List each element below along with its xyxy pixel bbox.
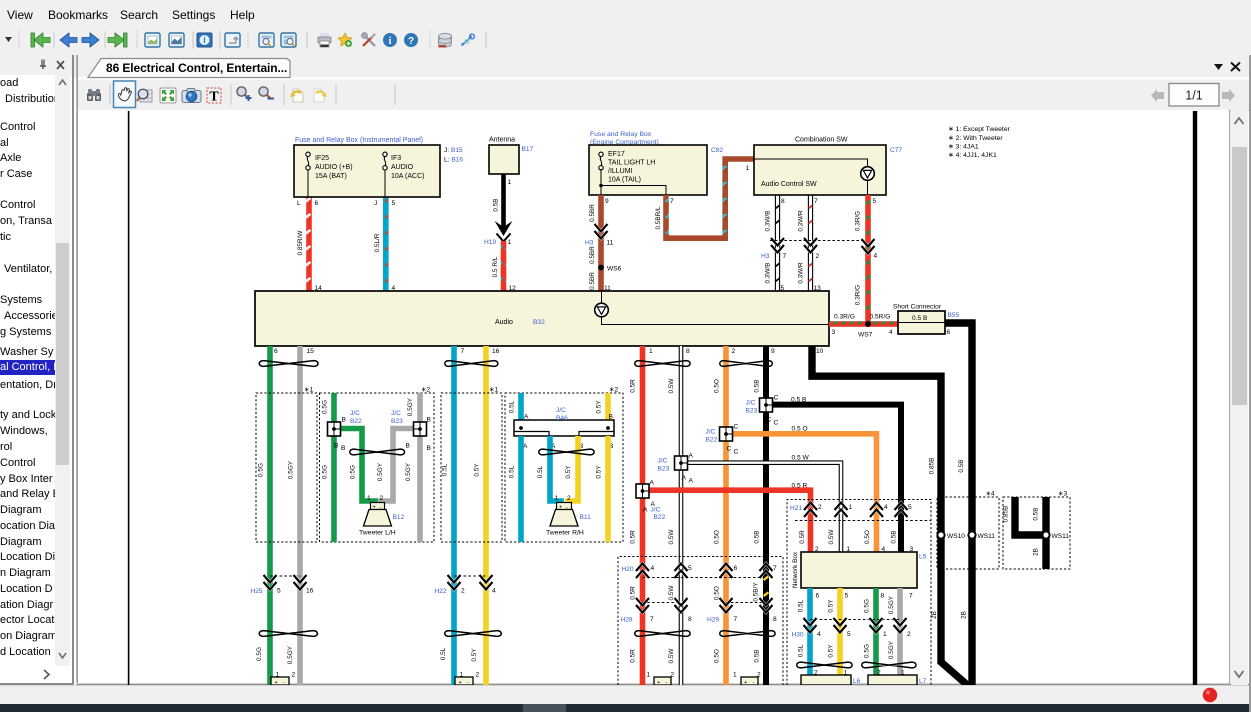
T — [207, 88, 221, 105]
twisted pair tweeter LH — [350, 449, 405, 455]
svg-text:2: 2 — [732, 348, 736, 355]
help circle — [404, 33, 418, 47]
wire 0.5W audio pin8 — [679, 346, 684, 685]
svg-text:∗4: ∗4 — [986, 491, 996, 498]
svg-text:2B: 2B — [931, 611, 938, 619]
svg-text:B22: B22 — [706, 437, 718, 444]
network box dashed container — [787, 500, 931, 686]
svg-text:0.5Y: 0.5Y — [828, 644, 835, 658]
back/forward — [60, 33, 77, 47]
window zoom icons — [259, 33, 274, 47]
svg-text:AUDIO (+B): AUDIO (+B) — [315, 164, 353, 171]
0.3W/B wire — [775, 195, 779, 291]
svg-text:L5: L5 — [919, 554, 927, 561]
hand selected — [114, 81, 136, 108]
svg-text:9: 9 — [771, 348, 775, 355]
svg-text:J/C: J/C — [746, 400, 756, 407]
svg-text:J: J — [374, 200, 377, 207]
0.3R/G wire from lamp down to WS7 — [865, 195, 871, 324]
svg-text:0.85B: 0.85B — [1003, 506, 1010, 523]
dashed box *2b with tweeter — [505, 393, 623, 542]
svg-text:0.5L: 0.5L — [509, 465, 516, 478]
svg-text:0.5W: 0.5W — [668, 378, 675, 394]
svg-text:5: 5 — [277, 588, 281, 595]
svg-text:J/C: J/C — [391, 410, 401, 417]
svg-text:∗3: ∗3 — [1058, 491, 1068, 498]
twisted pair O/B lower — [720, 631, 775, 637]
twisted pair tweeter RH — [539, 449, 594, 455]
svg-text:86 Electrical Control, Enterta: 86 Electrical Control, Entertain... — [106, 61, 287, 75]
svg-text:0.5 B: 0.5 B — [791, 397, 807, 404]
svg-text:1: 1 — [849, 504, 853, 511]
connect search — [461, 34, 474, 46]
ground wire 0.85B variant — [1015, 497, 1046, 535]
svg-text:H28: H28 — [621, 617, 633, 624]
wire 0.5L audio pin7 — [451, 346, 457, 685]
svg-text:0.5GY: 0.5GY — [287, 645, 294, 664]
svg-text:C82: C82 — [711, 147, 723, 154]
svg-text:0.5W: 0.5W — [668, 648, 675, 664]
svg-text:J: B15: J: B15 — [444, 147, 463, 154]
svg-text:0.5Y: 0.5Y — [471, 648, 478, 662]
junction WS11 — [968, 531, 975, 538]
info circle — [383, 33, 397, 47]
audio box — [255, 291, 829, 346]
svg-text:H3: H3 — [585, 240, 594, 247]
svg-text:0.5L: 0.5L — [442, 463, 449, 476]
svg-text:6: 6 — [734, 565, 738, 572]
svg-text:0.5R: 0.5R — [630, 530, 637, 544]
svg-text:0.5 R: 0.5 R — [792, 483, 808, 490]
svg-text:0.5G: 0.5G — [350, 465, 357, 479]
svg-text:9: 9 — [605, 198, 609, 205]
svg-text:WS7: WS7 — [858, 332, 873, 339]
svg-text:C: C — [774, 395, 779, 402]
svg-text:16: 16 — [492, 348, 500, 355]
svg-text:C: C — [767, 417, 772, 424]
svg-text:1: 1 — [733, 672, 737, 679]
twisted pair L/Y lower — [445, 631, 502, 637]
fuse IF3 — [384, 169, 386, 197]
binoculars — [87, 89, 101, 101]
svg-text:0.5 W: 0.5 W — [792, 455, 810, 462]
svg-text:0.5O: 0.5O — [714, 530, 721, 544]
wire 0.5G branch to tweeter — [340, 429, 375, 505]
svg-text:WS10: WS10 — [947, 533, 965, 540]
svg-text:8: 8 — [881, 593, 885, 600]
svg-text:IF25: IF25 — [315, 155, 329, 162]
twisted pair L/Y lower2 — [797, 662, 852, 668]
svg-text:B22: B22 — [654, 514, 666, 521]
fuse EF17 — [599, 152, 603, 170]
junction WS10 — [937, 531, 944, 538]
svg-text:5: 5 — [847, 631, 851, 638]
dashed box *2 with tweeter — [320, 393, 435, 542]
dashed box *4 — [937, 497, 999, 569]
svg-text:B23: B23 — [658, 466, 670, 473]
camera — [182, 89, 201, 103]
svg-text:A: A — [689, 453, 694, 460]
connector H28 H29 arrows — [636, 598, 649, 613]
wire 0.5GY audio pin15 — [297, 346, 303, 685]
panel borders — [76, 55, 78, 683]
svg-text:4: 4 — [884, 504, 888, 511]
svg-text:2: 2 — [476, 672, 480, 679]
first (|<-) — [31, 33, 50, 47]
svg-text:11: 11 — [607, 240, 614, 247]
wire 0.5Y branch to tweeter — [568, 436, 578, 504]
svg-text:0.5G: 0.5G — [258, 463, 265, 477]
connector H3 arrow on 0.3R/G — [862, 239, 875, 254]
svg-text:L: L — [297, 200, 301, 207]
svg-text:7: 7 — [783, 253, 787, 260]
svg-text:6: 6 — [274, 348, 278, 355]
svg-text:10A (ACC): 10A (ACC) — [391, 173, 424, 180]
connector L6 — [801, 675, 851, 685]
svg-text:2: 2 — [292, 672, 296, 679]
svg-text:A: A — [689, 478, 694, 485]
svg-text:A: A — [643, 507, 648, 514]
svg-text:Network Box: Network Box — [792, 551, 799, 588]
svg-text:T: T — [209, 90, 219, 105]
svg-text:H29: H29 — [707, 617, 719, 624]
lamp symbol in combination SW — [861, 167, 875, 181]
svg-text:C: C — [734, 424, 739, 431]
svg-text:1: 1 — [508, 179, 512, 186]
svg-text:0.5BR: 0.5BR — [589, 246, 596, 264]
sidebar header pin + close — [40, 60, 64, 70]
dashed box *1 except tweeter — [256, 393, 317, 542]
svg-text:J/C: J/C — [350, 410, 360, 417]
svg-text:1: 1 — [555, 495, 559, 502]
connector H3 arrow on 0.3W/R — [804, 238, 817, 253]
svg-text:2: 2 — [818, 504, 822, 511]
svg-text:Combination SW: Combination SW — [795, 137, 848, 144]
svg-text:B: B — [341, 445, 346, 452]
wire 0.5L/R — [383, 197, 389, 291]
svg-text:A: A — [524, 414, 529, 421]
svg-text:1: 1 — [746, 165, 750, 172]
svg-text:TAIL LIGHT LH: TAIL LIGHT LH — [608, 160, 655, 167]
svg-text:Tweeter L/H: Tweeter L/H — [359, 530, 396, 537]
svg-text:i: i — [389, 36, 392, 47]
junction connector J/C B23 — [414, 422, 427, 436]
svg-text:0.5W: 0.5W — [668, 529, 675, 545]
svg-text:2: 2 — [567, 495, 571, 502]
svg-text:1: 1 — [649, 348, 653, 355]
lamp symbol in audio unit — [601, 291, 603, 304]
svg-text:C: C — [727, 446, 732, 453]
svg-text:2: 2 — [461, 588, 465, 595]
svg-text:0.5Y: 0.5Y — [474, 463, 481, 477]
svg-text:15: 15 — [307, 348, 315, 355]
svg-text:A: A — [650, 480, 655, 487]
wire 0.5L network pin6 — [807, 588, 813, 685]
wire 0.5Y network pin5 — [837, 588, 843, 685]
svg-text:4: 4 — [889, 329, 893, 336]
svg-text:H20: H20 — [622, 566, 634, 573]
menu bar — [0, 0, 1251, 26]
connector boundary dashed line — [770, 240, 864, 242]
svg-text:0.5R: 0.5R — [630, 586, 637, 600]
ground wire 0.5B/2B variant — [1042, 497, 1049, 569]
wire 0.5O to network box — [732, 434, 877, 552]
ground wire 0.85B from audio pin10 — [812, 346, 969, 687]
svg-text:B: B — [406, 443, 411, 450]
svg-text:0.5O: 0.5O — [714, 649, 721, 663]
svg-text:H19: H19 — [484, 239, 496, 246]
svg-text:5: 5 — [688, 565, 692, 572]
junction WS7 — [865, 321, 871, 327]
twisted pair G/GY lower — [259, 631, 317, 637]
svg-text:B22: B22 — [350, 418, 362, 425]
svg-text:1: 1 — [883, 631, 887, 638]
twisted pair L/Y — [445, 361, 498, 367]
svg-text:4: 4 — [651, 565, 655, 572]
svg-text:0.5O: 0.5O — [714, 586, 721, 600]
svg-text:B: B — [427, 445, 432, 452]
wire 0.5O audio pin2 — [723, 346, 729, 685]
svg-text:0.3W/B: 0.3W/B — [765, 211, 772, 232]
wire 0.5B to network box — [772, 405, 901, 552]
zoom in/out — [237, 87, 252, 101]
page nav right — [1151, 89, 1164, 102]
connector H3 arrow on 0.3W/B — [771, 238, 784, 253]
svg-text:H21: H21 — [790, 505, 802, 512]
svg-text:H22: H22 — [435, 588, 447, 595]
page icons — [145, 33, 160, 47]
svg-text:H25: H25 — [251, 588, 263, 595]
svg-text:EF17: EF17 — [608, 151, 625, 158]
svg-text:7: 7 — [461, 348, 465, 355]
svg-text:0.5Y: 0.5Y — [596, 400, 603, 414]
svg-text:0.5Y: 0.5Y — [565, 465, 572, 479]
junction connector J/C B46 — [514, 420, 614, 436]
svg-text:0.5B: 0.5B — [958, 459, 965, 472]
svg-text:B32: B32 — [533, 319, 545, 326]
svg-text:0.5G: 0.5G — [864, 644, 871, 658]
svg-text:0.5G: 0.5G — [256, 647, 263, 661]
svg-text:3: 3 — [832, 329, 836, 336]
svg-text:L6: L6 — [853, 678, 861, 685]
printer — [318, 33, 331, 47]
svg-text:7: 7 — [734, 616, 738, 623]
svg-text:0.5B: 0.5B — [754, 379, 761, 392]
svg-text:0.3W/B: 0.3W/B — [765, 263, 772, 284]
svg-text:0.5R/G: 0.5R/G — [870, 314, 891, 321]
svg-text:0.5BR: 0.5BR — [589, 272, 596, 290]
junction WS11 variant — [1042, 531, 1049, 538]
svg-text:i: i — [203, 35, 206, 45]
wire 0.3R/G audio pin3 to WS7 — [829, 321, 898, 327]
wire 0.5BR down from pin 9 — [598, 195, 604, 291]
wire 0.85R/W — [306, 197, 312, 291]
svg-text:0.5 O: 0.5 O — [792, 426, 808, 433]
ground wire 0.5B from short connector — [945, 323, 972, 687]
svg-text:B: B — [427, 417, 432, 424]
svg-text:2: 2 — [380, 495, 384, 502]
svg-text:∗2: ∗2 — [421, 387, 431, 394]
wire 0.5B audio pin9 — [763, 346, 769, 685]
svg-text:10: 10 — [816, 348, 824, 355]
svg-text:7: 7 — [773, 565, 777, 572]
svg-text:B55: B55 — [948, 312, 960, 319]
fit page — [160, 88, 176, 103]
svg-text:0.5GY: 0.5GY — [288, 460, 295, 479]
tools — [362, 33, 375, 46]
svg-text:0.5BR/L: 0.5BR/L — [655, 206, 662, 230]
undo/redo — [291, 89, 304, 102]
svg-text:0.5 R/L: 0.5 R/L — [492, 256, 499, 277]
svg-text:5: 5 — [873, 198, 877, 205]
svg-text:7: 7 — [670, 198, 674, 205]
bottom dashed box (H20 connector) — [618, 557, 783, 686]
svg-text:8: 8 — [686, 348, 690, 355]
connector L7 — [868, 675, 917, 685]
svg-text:∗1: ∗1 — [489, 387, 499, 394]
svg-text:0.5B: 0.5B — [754, 649, 761, 662]
svg-text:0.5G: 0.5G — [322, 400, 329, 414]
dashed box *1b except tweeter — [441, 393, 502, 542]
svg-text:8: 8 — [773, 616, 777, 623]
junction connector J/C B23 on 0.5B — [760, 398, 773, 412]
svg-text:0.5Y: 0.5Y — [596, 465, 603, 479]
star+ — [338, 33, 352, 47]
svg-text:C: C — [734, 449, 739, 456]
svg-text:6: 6 — [315, 200, 319, 207]
svg-text:0.5GY: 0.5GY — [888, 640, 895, 659]
svg-text:0.3R/G: 0.3R/G — [855, 285, 862, 305]
svg-text:B46: B46 — [556, 415, 568, 422]
toolbar2 icons — [87, 81, 1235, 108]
svg-text:∗1: ∗1 — [304, 387, 314, 394]
wire 0.5W to network box — [687, 463, 841, 552]
svg-text:0.5Y: 0.5Y — [828, 599, 835, 613]
svg-text:0.3R/G: 0.3R/G — [834, 314, 855, 321]
svg-text:L7: L7 — [919, 678, 927, 685]
connector H3 arrow on 0.5BR — [595, 224, 608, 239]
svg-text:0.5L: 0.5L — [798, 644, 805, 657]
wire 0.5L branch to tweeter — [550, 436, 561, 504]
svg-text:0.5GY: 0.5GY — [407, 397, 414, 416]
dashed box *3 — [1003, 497, 1070, 569]
svg-text:0.5R: 0.5R — [630, 649, 637, 663]
svg-text:B12: B12 — [393, 514, 405, 521]
twisted pair G/GY lower2 — [862, 662, 916, 668]
page left border line — [128, 111, 130, 685]
database — [439, 33, 452, 47]
svg-text:A: A — [682, 475, 687, 482]
svg-text:WS11: WS11 — [1052, 533, 1070, 540]
svg-text:H3: H3 — [761, 253, 770, 260]
front speaker LH connector — [271, 677, 289, 685]
tab — [78, 59, 1251, 80]
tab bar — [0, 55, 1251, 78]
svg-text:4: 4 — [817, 631, 821, 638]
svg-text:AUDIO: AUDIO — [391, 164, 414, 171]
svg-text:B: B — [342, 417, 347, 424]
junction WS6 — [598, 265, 604, 271]
svg-text:7: 7 — [909, 593, 913, 600]
svg-text:J/C: J/C — [706, 429, 716, 436]
svg-text:L: B16: L: B16 — [444, 157, 463, 164]
content scrollbar — [1229, 55, 1251, 712]
svg-text:1: 1 — [367, 495, 371, 502]
connector H30 arrows — [810, 619, 900, 621]
svg-text:0.5GY: 0.5GY — [888, 595, 895, 614]
svg-text:2B: 2B — [961, 611, 968, 619]
page right heavy border line — [1193, 111, 1197, 685]
svg-text:16: 16 — [306, 588, 314, 595]
svg-text:B23: B23 — [391, 418, 403, 425]
status red dot — [1203, 688, 1217, 702]
svg-text:∗ 2: With Tweeter: ∗ 2: With Tweeter — [948, 135, 1003, 142]
svg-text:6: 6 — [947, 329, 951, 336]
svg-text:0.3W/R: 0.3W/R — [798, 262, 805, 284]
svg-text:Tweeter R/H: Tweeter R/H — [546, 530, 584, 537]
svg-text:0.5B: 0.5B — [493, 198, 500, 211]
svg-text:B: B — [609, 414, 614, 421]
svg-text:0.5G: 0.5G — [322, 465, 329, 479]
wire 0.5B/Y section — [763, 575, 769, 597]
connector H21 arrows — [804, 503, 908, 518]
svg-text:B17: B17 — [522, 146, 534, 153]
svg-text:0.5B: 0.5B — [1033, 507, 1040, 520]
wire 0.5L stub — [518, 393, 524, 420]
junction connector J/C B23 on 0.5W — [675, 456, 688, 470]
svg-text:0.5GY: 0.5GY — [377, 462, 384, 481]
svg-text:0.5L: 0.5L — [798, 599, 805, 612]
svg-text:8: 8 — [781, 198, 785, 205]
svg-text:∗ 4: 4JJ1, 4JK1: ∗ 4: 4JJ1, 4JK1 — [948, 152, 997, 159]
internal wire to illumination lamp — [754, 159, 868, 167]
rear speaker RH connector — [741, 677, 758, 685]
taskbar button — [523, 704, 566, 712]
svg-text:0.5W: 0.5W — [668, 585, 675, 601]
svg-text:J/C: J/C — [658, 458, 668, 465]
content — [78, 110, 1228, 685]
wire 0.5Y stub — [605, 393, 611, 420]
wire 0.5GY network pin7 — [897, 588, 903, 685]
twisted pair R/W lower — [635, 631, 690, 637]
wire 0.5Y audio pin16 — [483, 346, 489, 685]
last (->|) — [108, 33, 127, 47]
svg-text:J/C: J/C — [651, 507, 661, 514]
wire 0.5GY branch to tweeter — [381, 429, 415, 505]
svg-text:Short Connector: Short Connector — [893, 304, 942, 311]
toolbar row 2 — [78, 78, 1251, 111]
svg-text:4: 4 — [492, 588, 496, 595]
svg-text:7: 7 — [650, 616, 654, 623]
svg-text:0.5BR: 0.5BR — [589, 204, 596, 222]
svg-text:Audio Control SW: Audio Control SW — [761, 181, 817, 188]
svg-text:0.5GY: 0.5GY — [405, 462, 412, 481]
svg-text:6: 6 — [816, 593, 820, 600]
svg-text:0.5W: 0.5W — [828, 529, 835, 545]
wire 0.5R audio pin1 — [640, 346, 646, 685]
svg-text:0.5O: 0.5O — [864, 530, 871, 544]
svg-text:0.85R/W: 0.85R/W — [297, 230, 304, 256]
svg-text:0.5B: 0.5B — [891, 530, 898, 543]
svg-text:Fuse and Relay Box: Fuse and Relay Box — [590, 131, 652, 138]
svg-text:5: 5 — [845, 593, 849, 600]
wire 0.5R to network box — [648, 490, 811, 552]
svg-text:J/C: J/C — [556, 407, 566, 414]
twisted pair O/B — [720, 361, 773, 367]
wire 0.5G network pin8 — [873, 588, 879, 685]
svg-text:0.5 B: 0.5 B — [912, 315, 928, 322]
svg-text:4: 4 — [874, 253, 878, 260]
